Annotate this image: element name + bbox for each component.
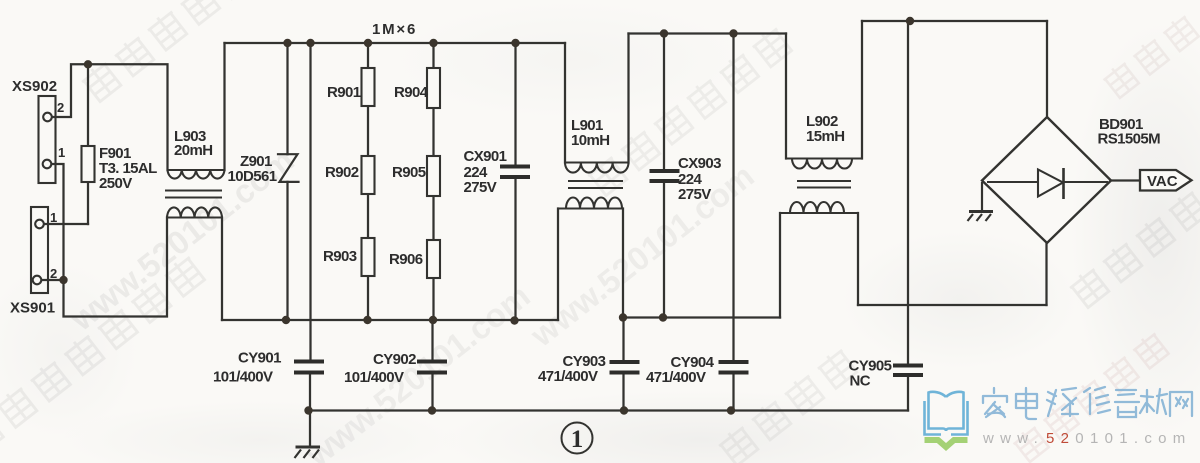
wire: top bus 2: [629, 32, 787, 34]
junction node: center bus / CY903: [619, 313, 627, 321]
svg-text:RS1505M: RS1505M: [1098, 131, 1161, 148]
wire: XS902 pin2 to fuse-top node: [52, 64, 85, 117]
VAC output tag: [1140, 170, 1192, 191]
junction node: center bus / CX903: [659, 313, 667, 321]
resistor R901: [362, 68, 375, 106]
svg-text:10D561: 10D561: [228, 168, 277, 185]
wire: bridge bottom return: [1045, 243, 1047, 305]
choke L902: [780, 159, 862, 214]
site logo: book icon: [925, 392, 968, 435]
fuse F901: [82, 146, 95, 182]
resistor R902: [362, 156, 375, 194]
svg-text:20mH: 20mH: [174, 142, 212, 159]
svg-text:CX901: CX901: [464, 148, 507, 165]
wire: L903 top-right up to top bus 1: [223, 43, 225, 170]
wire: L901 bottom-right down to center bus: [622, 209, 624, 318]
wire: L902 bottom-right down to right bus: [857, 213, 859, 305]
wire: L902 top-right up to bus 3: [861, 21, 863, 159]
wire: CY901 below plates to ground: [309, 373, 311, 447]
junction node: bus3 / CY905: [906, 17, 914, 25]
junction node: left bus / R906: [429, 316, 437, 324]
svg-text:XS902: XS902: [12, 78, 57, 95]
connector XS901: [31, 207, 48, 293]
junction node: left bus / Z901: [282, 316, 290, 324]
wire: varistor Z901 branch upper: [286, 43, 288, 154]
svg-text:R905: R905: [392, 164, 426, 181]
wire: CY905 branch: [907, 21, 909, 411]
svg-text:NC: NC: [850, 373, 871, 390]
wire: L902 bottom-left down to center bus: [779, 213, 781, 318]
svg-text:1: 1: [58, 145, 65, 160]
junction node: earth bus / CY903: [620, 406, 628, 414]
node marker: circled 1: [562, 423, 593, 454]
svg-text:R904: R904: [394, 84, 429, 101]
wire: CY902 branch below left bus: [431, 320, 433, 411]
connector XS902: [39, 96, 56, 183]
capacitor CY904: [719, 362, 749, 373]
wire: earth bus: [309, 409, 909, 411]
bridge rectifier BD901: [982, 117, 1111, 243]
junction node: XS901.2 tap: [59, 276, 67, 284]
varistor Z901: [278, 154, 299, 182]
junction node: bus2 / CX903: [660, 29, 668, 37]
junction node: bus2 / CY904: [729, 29, 737, 37]
svg-text:R906: R906: [389, 251, 423, 268]
svg-text:XS901: XS901: [10, 300, 55, 317]
svg-text:1M×6: 1M×6: [372, 21, 417, 38]
capacitor CY901: [294, 362, 324, 373]
wire: CY901 branch (top bus to earth): [309, 43, 311, 361]
choke L903: [165, 170, 225, 218]
svg-text:15mH: 15mH: [806, 128, 844, 145]
wire: L901 bottom-left down to left bus: [557, 209, 559, 321]
wire: varistor Z901 branch lower: [286, 182, 288, 320]
wire: bridge top feed: [1046, 21, 1048, 117]
junction node: left bus / R903: [363, 316, 371, 324]
wire: L901 top-left up to bus 1: [564, 43, 566, 163]
wire: CX903 branch: [663, 34, 665, 318]
svg-text:10mH: 10mH: [571, 132, 609, 149]
svg-text:2: 2: [50, 266, 57, 281]
wire: top bus 1: [225, 42, 566, 44]
junction node: bus1 / CY901: [306, 39, 314, 47]
resistor R906: [427, 240, 440, 278]
watermark: CJK band top-left: [79, 0, 287, 103]
ground at CY901: [295, 447, 321, 458]
capacitor CY905: [893, 366, 923, 376]
junction node: bus1 / R901: [364, 39, 372, 47]
wire: L901 top-right up to bus 2: [627, 34, 629, 163]
svg-text:CX903: CX903: [678, 155, 721, 172]
fuse F901 vertical wire: [87, 68, 89, 224]
capacitor CY903: [610, 362, 640, 373]
svg-text:CY902: CY902: [373, 351, 416, 368]
site logo text (hanzi strokes): [983, 387, 1192, 419]
wire: left bottom bus: [222, 319, 558, 321]
svg-text:250V: 250V: [99, 175, 132, 192]
wire: top bus 3: [862, 20, 1047, 22]
junction node: left bus / CX901: [510, 316, 518, 324]
junction node: earth bus / CY902: [428, 406, 436, 414]
capacitor CX903: [650, 171, 680, 181]
svg-text:275V: 275V: [678, 186, 711, 203]
wire: bridge output to VAC: [1111, 179, 1140, 181]
watermark: CJK band top-center: [585, 25, 793, 197]
resistor R905: [427, 156, 440, 196]
capacitor CX901: [500, 167, 530, 178]
svg-text:R902: R902: [325, 164, 359, 181]
junction node: bus1 / Z901: [283, 39, 291, 47]
svg-text:471/400V: 471/400V: [646, 369, 706, 386]
svg-text:www.: www.: [982, 430, 1044, 447]
wire: resistor column R904-R906: [432, 43, 434, 320]
wire: fuse-top node to L903 top-left: [92, 64, 168, 170]
junction node: earth bus / CY901: [304, 406, 312, 414]
wire: L903 bottom-right down to left bottom bus: [221, 218, 223, 321]
watermark: CJK band top-right: [1101, 13, 1200, 99]
junction node: fuse top / XS902.2 / L903: [84, 60, 92, 68]
watermark: CJK band pink behind logo: [1011, 330, 1170, 463]
wire: CY904 branch: [732, 34, 734, 411]
ground at bridge negative: [968, 182, 994, 221]
watermark: CJK band right: [1067, 188, 1200, 308]
svg-text:471/400V: 471/400V: [538, 368, 598, 385]
junction node: earth bus / CY904: [727, 406, 735, 414]
wire: resistor column R901-R903: [367, 43, 369, 320]
wire: XS901 pin2 to junction: [41, 279, 64, 281]
resistor R903: [362, 238, 375, 276]
svg-text:520101.com: 520101.com: [1046, 430, 1192, 447]
resistor R904: [427, 68, 440, 108]
watermark: CJK band bottom-left corner: [0, 254, 206, 455]
wire: XS902 pin1 down to L903 bottom-left: [51, 164, 167, 317]
site logo: green ribbon: [925, 440, 968, 447]
svg-text:101/400V: 101/400V: [213, 369, 273, 386]
watermark: CJK band bottom-center: [716, 346, 858, 463]
svg-text:101/400V: 101/400V: [344, 369, 404, 386]
svg-text:R901: R901: [327, 84, 361, 101]
capacitor CY902: [417, 362, 447, 373]
wire: CY903 branch below center bus: [622, 318, 624, 411]
junction node: bus1 / CX901: [511, 39, 519, 47]
svg-text:1: 1: [571, 426, 584, 453]
choke L901: [558, 163, 629, 209]
svg-text:2: 2: [57, 100, 64, 115]
wire: XS901 pin1 to fuse bottom: [44, 223, 89, 225]
wire: CX901 branch: [514, 43, 516, 321]
wire: L902 top-left up to bus 2: [785, 34, 787, 159]
svg-text:CY901: CY901: [238, 350, 281, 367]
svg-text:R903: R903: [323, 248, 357, 265]
svg-text:275V: 275V: [464, 179, 497, 196]
wire: center bottom bus: [623, 316, 780, 318]
wire: right bottom bus: [858, 304, 1047, 306]
svg-text:1: 1: [50, 210, 57, 225]
junction node: bus1 / R904: [429, 39, 437, 47]
svg-text:VAC: VAC: [1147, 173, 1178, 190]
